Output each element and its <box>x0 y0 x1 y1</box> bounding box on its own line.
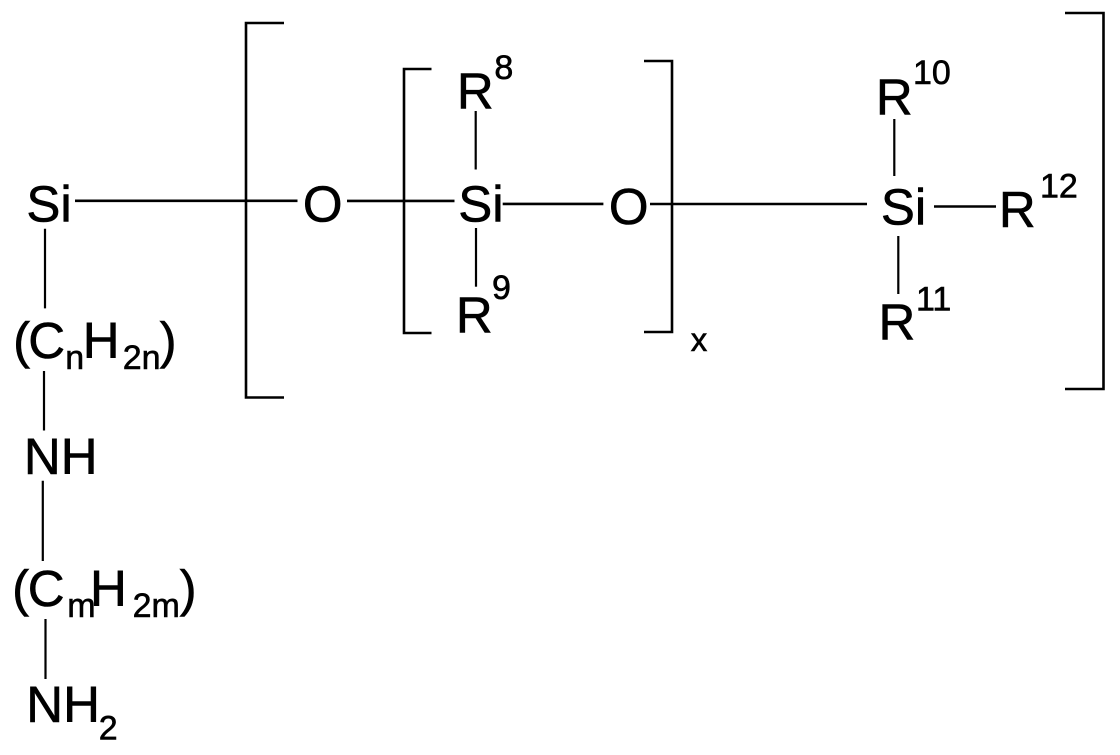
svg-text:n: n <box>65 339 84 377</box>
svg-text:2n: 2n <box>123 339 161 377</box>
svg-text:H: H <box>83 312 120 369</box>
svg-text:): ) <box>160 312 177 369</box>
wire bond O1 to Si-center <box>347 200 455 203</box>
svg-text:): ) <box>180 560 197 617</box>
svg-text:2m: 2m <box>133 587 180 625</box>
svg-text:(: ( <box>12 560 29 617</box>
wire bond Si-left to O1 <box>75 200 298 203</box>
svg-text:2: 2 <box>99 710 118 748</box>
svg-text:Si: Si <box>458 176 503 233</box>
wire bond Si-center to O2 <box>503 203 604 206</box>
svg-text:R: R <box>456 287 493 344</box>
bracket inner right <box>644 61 672 332</box>
wire bond R8 to Si-center <box>475 111 477 170</box>
svg-text:Si: Si <box>881 178 926 235</box>
bracket outer right <box>1065 13 1104 389</box>
svg-text:x: x <box>691 321 708 358</box>
svg-text:11: 11 <box>916 281 951 319</box>
wire bond R10 to Si-right <box>893 119 895 176</box>
svg-text:9: 9 <box>492 269 511 307</box>
svg-text:Si: Si <box>26 176 71 233</box>
svg-text:O: O <box>303 176 343 233</box>
svg-text:C: C <box>28 312 65 369</box>
svg-text:12: 12 <box>1040 168 1078 206</box>
wire bond (CmH2m) to NH2 <box>44 619 46 679</box>
svg-text:NH: NH <box>24 428 98 485</box>
svg-text:NH: NH <box>26 676 100 733</box>
svg-text:10: 10 <box>913 54 951 92</box>
wire bond O2 to Si-right <box>650 203 867 206</box>
svg-text:R: R <box>999 181 1036 238</box>
svg-text:C: C <box>28 560 65 617</box>
wire bond Si-center to R9 <box>475 228 477 287</box>
svg-text:H: H <box>90 560 127 617</box>
wire bond (CnH2n) to NH <box>43 371 45 431</box>
wire bond Si-left down to (CnH2n) <box>44 229 46 309</box>
svg-text:R: R <box>457 63 494 120</box>
wire bond Si-right to R11 <box>897 236 899 294</box>
svg-text:O: O <box>609 178 649 235</box>
svg-text:R: R <box>876 69 913 126</box>
wire bond NH to (CmH2m) <box>42 481 44 561</box>
svg-text:R: R <box>879 294 916 351</box>
svg-text:8: 8 <box>494 49 513 87</box>
wire bond Si-right to R12 <box>934 205 996 208</box>
bracket outer left <box>246 23 284 398</box>
bracket inner left <box>404 69 432 333</box>
